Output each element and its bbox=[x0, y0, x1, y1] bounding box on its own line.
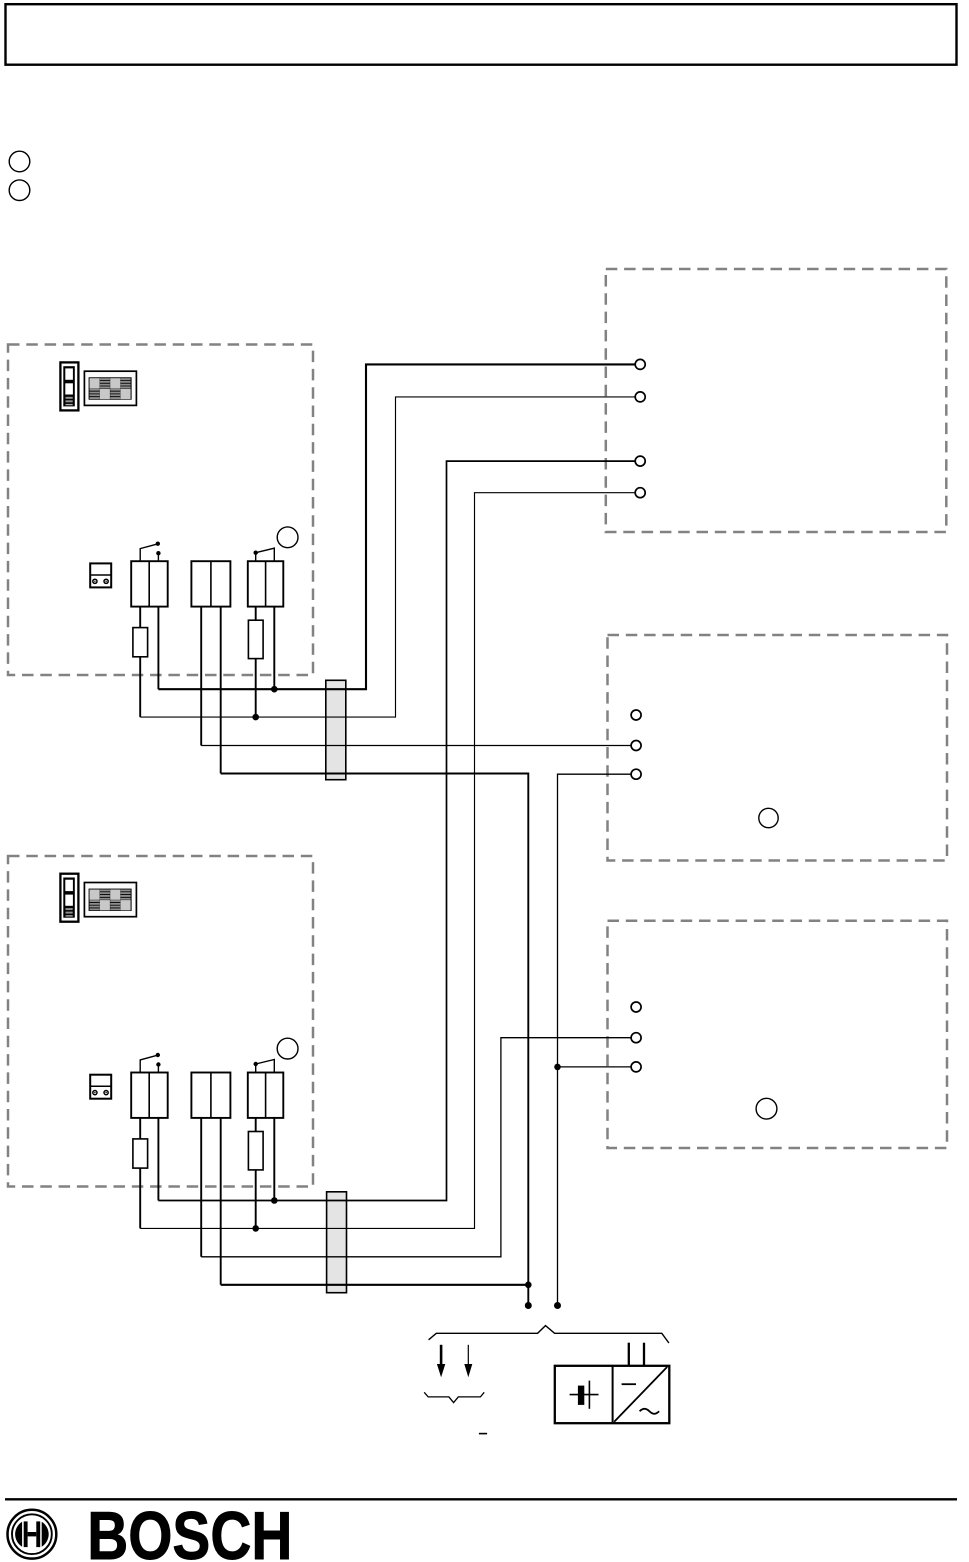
junction: M1c right lead on net 1 bbox=[271, 686, 278, 693]
valve actuator M1c bbox=[248, 561, 283, 606]
wire: M2c right lead down bbox=[273, 1118, 275, 1201]
wire: M1c right lead down bbox=[273, 607, 275, 690]
switch contact S2c bbox=[254, 1060, 275, 1073]
resistor R1a bbox=[133, 628, 148, 657]
node O1 legend circle bbox=[9, 151, 30, 172]
terminal A3 bbox=[635, 456, 645, 466]
minus label bbox=[479, 1433, 487, 1435]
switch contact S1c bbox=[254, 548, 275, 561]
switch contact S1a bbox=[140, 542, 160, 562]
terminal end dot: supply bus right bbox=[554, 1302, 561, 1309]
wire: M1c left lead down bbox=[255, 607, 257, 718]
Bosch logo armature symbol bbox=[8, 1510, 57, 1559]
terminal A1 bbox=[635, 359, 645, 369]
heat source box C enclosure bbox=[608, 921, 948, 1148]
wire: G1 terminal stub 1 bbox=[628, 1343, 630, 1366]
room unit 2 enclosure bbox=[8, 856, 313, 1187]
switch contact S2a bbox=[140, 1053, 160, 1073]
terminal end dot: supply bus left bbox=[525, 1302, 532, 1309]
cable bundle grommet 1 bbox=[326, 680, 346, 779]
node O2 legend circle bbox=[9, 180, 30, 201]
wire: M2b left lead down bbox=[200, 1118, 202, 1257]
wire net 9: unit2 M2b to supply bus junction bbox=[221, 1284, 529, 1286]
terminal C3 bbox=[631, 1062, 641, 1072]
terminal B3 bbox=[631, 769, 641, 779]
valve actuator M2b bbox=[191, 1073, 230, 1118]
controller box A enclosure bbox=[606, 269, 947, 532]
indicator circle P1 bbox=[277, 527, 298, 548]
valve actuator M2a bbox=[131, 1073, 168, 1118]
terminal C1 bbox=[631, 1002, 641, 1012]
resistor R2a bbox=[133, 1139, 148, 1168]
pump indicator circle in box B bbox=[759, 808, 778, 827]
room thermostat icon TH2 bbox=[60, 874, 78, 922]
junction: M2c right lead on net 6 bbox=[271, 1197, 278, 1204]
wire net 7: unit2 to controller A terminal 4 bbox=[140, 493, 635, 1229]
terminal A2 bbox=[635, 392, 645, 402]
battery symbol in G1 bbox=[570, 1381, 599, 1409]
room thermostat icon TH1 bbox=[60, 362, 78, 410]
indicator circle P2 bbox=[277, 1038, 298, 1059]
title block frame bbox=[6, 4, 957, 64]
wire net 2: unit1 to controller A terminal 2 bbox=[140, 397, 635, 717]
footer rule bbox=[5, 1498, 957, 1500]
plug connector X2 bbox=[90, 1075, 111, 1099]
wire: M2b right lead down bbox=[220, 1118, 222, 1285]
resistor R2c bbox=[248, 1132, 263, 1170]
plug connector X1 bbox=[90, 563, 111, 587]
wire net 3: unit1 M1b to box B terminal 2 bbox=[201, 745, 631, 747]
power supply unit G1 bbox=[555, 1366, 670, 1423]
cable bundle grommet 2 bbox=[327, 1192, 347, 1293]
wire: M1a left lead down bbox=[139, 607, 141, 718]
wire: M1b left lead down bbox=[200, 607, 202, 746]
terminal A4 bbox=[635, 488, 645, 498]
wire: M1a right lead down bbox=[157, 607, 159, 690]
junction: M2c left lead on net 7 bbox=[252, 1225, 259, 1232]
arrow: mains feed L (bold) bbox=[437, 1345, 445, 1377]
wire net 4: unit1 M1b to supply bus left bbox=[221, 774, 529, 1306]
wire: G1 terminal stub 2 bbox=[643, 1343, 645, 1366]
wire: M1b right lead down bbox=[220, 607, 222, 774]
wire net 1: unit1 to controller A terminal 1 bbox=[158, 364, 635, 689]
room unit 1 enclosure bbox=[8, 345, 313, 676]
junction: M1c left lead on net 2 bbox=[252, 714, 259, 721]
valve actuator M2c bbox=[248, 1073, 283, 1118]
wire net 8: unit2 M2b to box C terminal 2 bbox=[201, 1038, 631, 1257]
wire net 6: unit2 to controller A terminal 3 bbox=[158, 461, 635, 1200]
arrow: mains feed N bbox=[464, 1345, 472, 1377]
brace: mains pair grouping bbox=[424, 1392, 484, 1402]
wire net 5: box B terminal 3 to supply bus right bbox=[558, 774, 632, 1305]
AC/DC converter symbol in G1 bbox=[614, 1367, 667, 1422]
terminal B1 bbox=[631, 710, 641, 720]
wire: M2c left lead down bbox=[255, 1118, 257, 1229]
resistor R1c bbox=[248, 620, 263, 658]
terminal C2 bbox=[631, 1033, 641, 1043]
wire: M2a left lead down bbox=[139, 1118, 141, 1229]
svg-text:BOSCH: BOSCH bbox=[87, 1498, 292, 1562]
terminal B2 bbox=[631, 741, 641, 751]
pump indicator circle in box C bbox=[756, 1098, 777, 1119]
junction: box C terminal 3 tap on net 5 bbox=[554, 1064, 561, 1071]
wire: M2a right lead down bbox=[157, 1118, 159, 1201]
brace: power supply grouping bbox=[429, 1326, 669, 1343]
valve actuator M1a bbox=[131, 561, 168, 606]
valve actuator M1b bbox=[191, 561, 230, 606]
junction: net 4 meets unit2 supply wire bbox=[525, 1282, 532, 1289]
heating manifold icon HK1 bbox=[84, 371, 136, 405]
heat source box B enclosure bbox=[608, 635, 948, 861]
wire net 10: box C terminal 3 stub bbox=[558, 1066, 632, 1068]
heating manifold icon HK2 bbox=[84, 883, 136, 917]
